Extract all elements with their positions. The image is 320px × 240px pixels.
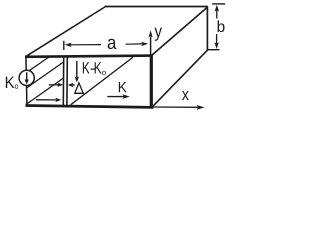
label a [108, 39, 117, 49]
dimension a: left arrow (points left) [65, 43, 101, 47]
label x [182, 91, 189, 100]
hatch line h1 [27, 57, 50, 73]
dimension b: bottom arrow (points down) [214, 34, 218, 49]
front face top edge [25, 56, 153, 57]
front face right edge [150, 55, 153, 109]
hatch line h3 [26, 78, 64, 105]
y axis [149, 30, 153, 55]
top/right shared diagonal edge [152, 7, 208, 56]
front face left edge [26, 57, 27, 105]
label y [154, 28, 162, 41]
label K0 (left) [6, 77, 18, 89]
domain wall line 2 [66, 57, 68, 106]
label K-K0 [83, 62, 106, 75]
hatch line h2 [27, 62, 64, 88]
domain wall line 1 [62, 57, 64, 106]
dimension a: right arrow (points right) [126, 42, 149, 46]
label K (right domain) [119, 82, 127, 92]
main diagonal in right domain [71, 57, 133, 105]
top face left diagonal edge [26, 7, 105, 56]
arrow pointing right at wall (lower) [36, 98, 62, 102]
down arrow for K-K0 [75, 61, 80, 83]
right face bottom diagonal edge [153, 50, 208, 106]
circle with K0 arrow (flux symbol) [19, 70, 34, 85]
dimension a: left tick [63, 41, 65, 50]
arrow pointing right at wall (upper) [49, 83, 63, 87]
label b [218, 20, 225, 32]
arrow pointing left right of wall [68, 83, 75, 87]
right face back vertical edge [206, 7, 208, 51]
K arrow in right domain [107, 94, 130, 99]
top face back edge [105, 6, 208, 8]
dimension b: top tick [212, 3, 225, 5]
arrow inside circle pointing down [25, 72, 29, 84]
dimension b: bottom tick [208, 49, 220, 51]
front face bottom edge [26, 106, 154, 108]
dimension b: top arrow (points up) [215, 5, 219, 19]
x axis [153, 105, 205, 110]
delta triangle [75, 83, 84, 93]
